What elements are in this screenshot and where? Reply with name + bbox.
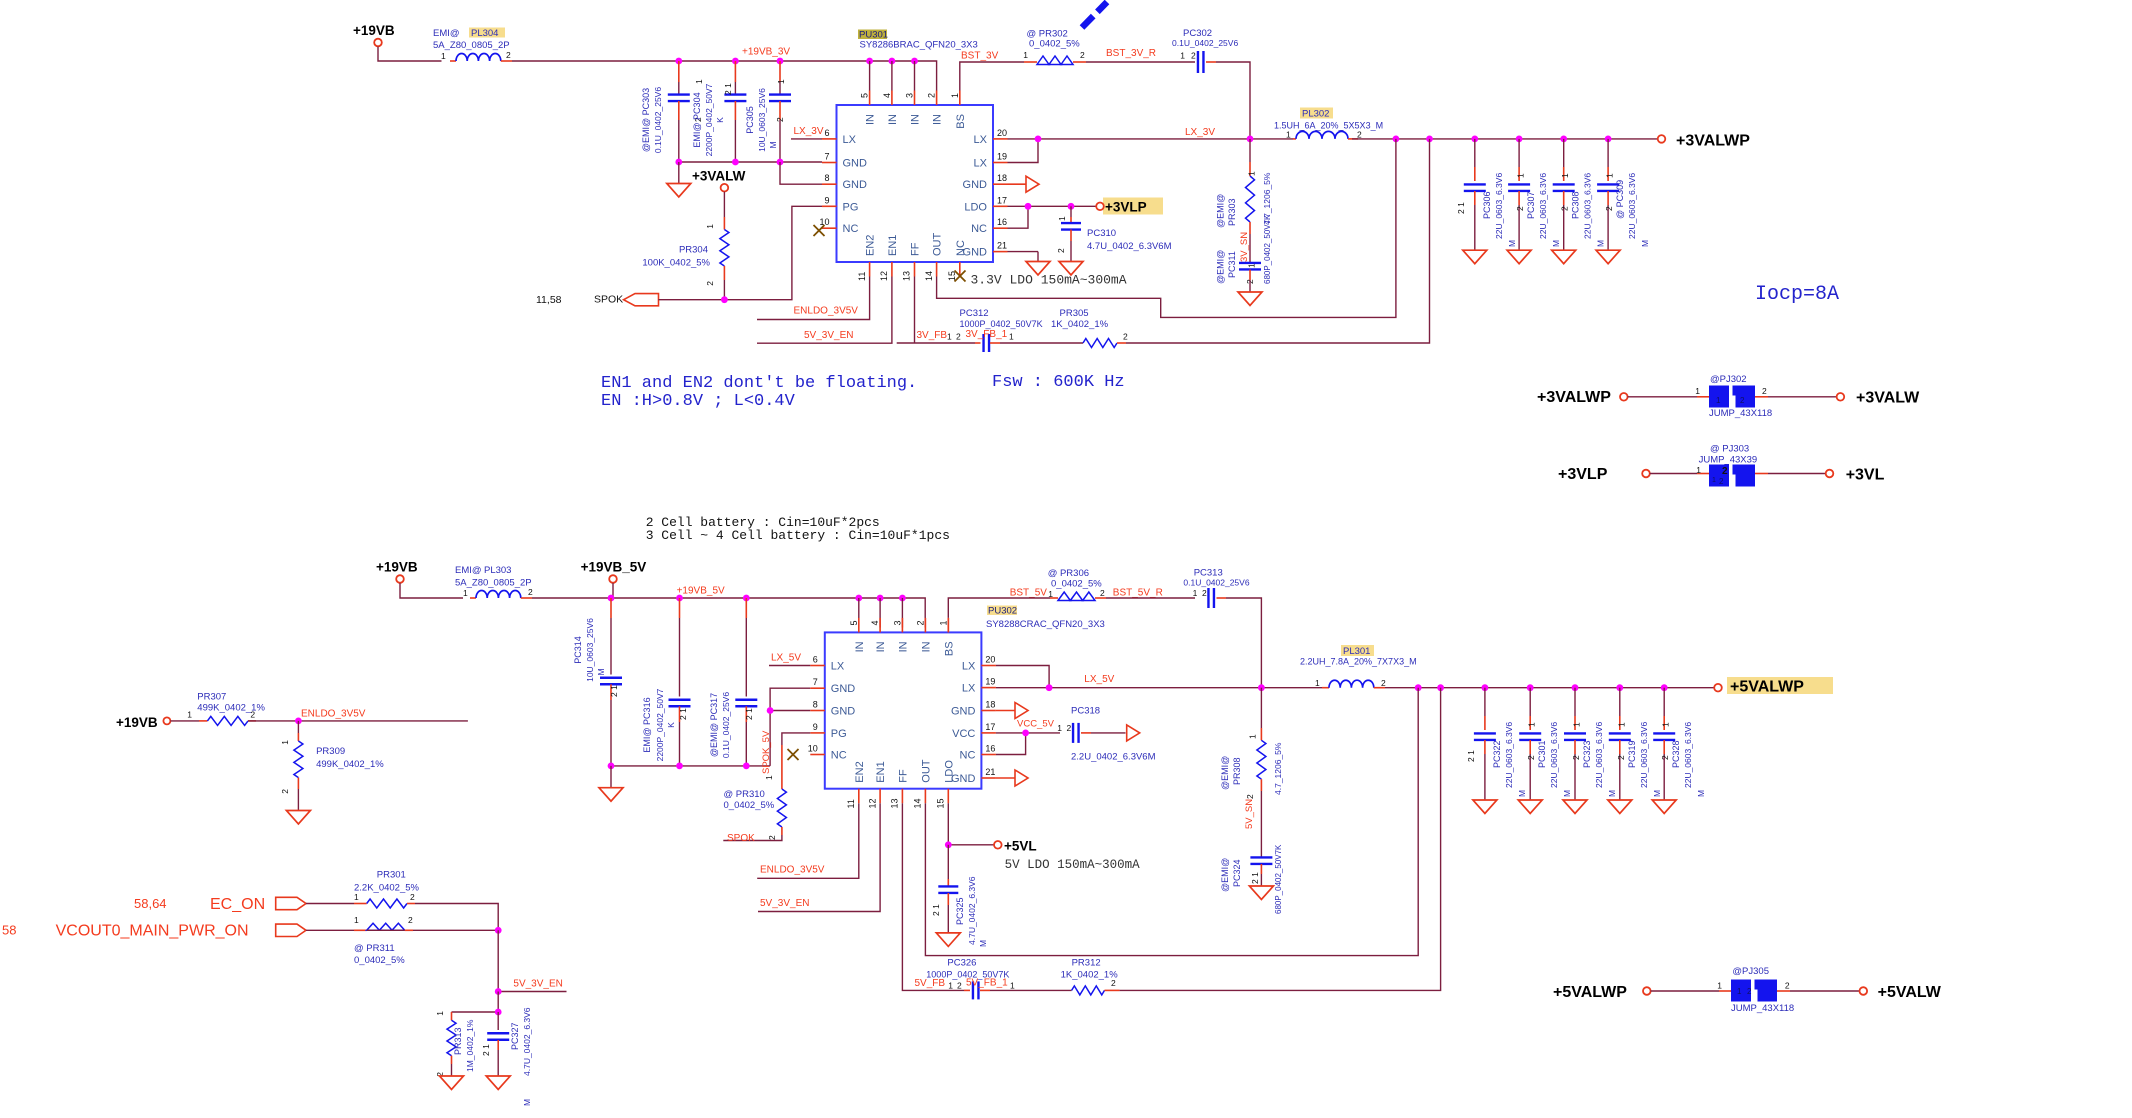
svg-text:0_0402_5%: 0_0402_5% <box>1029 39 1080 50</box>
svg-text:22U_0603_6.3V6: 22U_0603_6.3V6 <box>1504 722 1514 788</box>
svg-text:1: 1 <box>187 710 192 720</box>
wire EN1 5V_3V_EN <box>757 277 892 344</box>
svg-text:PC319: PC319 <box>1627 740 1637 768</box>
capacitor PC324 <box>1220 791 1283 914</box>
svg-text:@ PJ303: @ PJ303 <box>1710 444 1749 455</box>
svg-text:M: M <box>1507 240 1517 247</box>
svg-text:M: M <box>1607 790 1617 797</box>
svg-text:8: 8 <box>824 173 829 183</box>
resistor PR301 <box>354 870 420 909</box>
svg-text:+3VLP: +3VLP <box>1105 200 1147 215</box>
resistor PR302 <box>1023 29 1086 65</box>
svg-text:10U_0603_25V6: 10U_0603_25V6 <box>757 88 767 152</box>
net label 5V_3V_EN (left) <box>513 979 562 990</box>
svg-text:1: 1 <box>280 740 290 745</box>
svg-text:LX_3V: LX_3V <box>794 126 824 137</box>
svg-text:0.1U_0402_25V6: 0.1U_0402_25V6 <box>1172 38 1238 48</box>
wire FB to +5VALWP rail <box>1120 688 1441 991</box>
svg-text:PC325: PC325 <box>955 897 965 925</box>
svg-text:2: 2 <box>280 789 290 794</box>
svg-text:1: 1 <box>463 588 468 598</box>
svg-text:3.3V LDO 150mA~300mA: 3.3V LDO 150mA~300mA <box>971 273 1127 288</box>
wire PJ303 to +3VL <box>1755 473 1826 475</box>
wire 5V_3V_EN stub <box>498 991 566 993</box>
net label VCC_5V <box>1017 719 1055 730</box>
svg-text:BS: BS <box>955 114 967 129</box>
inductor PL301 <box>1300 645 1417 688</box>
svg-text:2: 2 <box>1762 386 1767 396</box>
svg-text:2: 2 <box>1515 206 1525 211</box>
svg-text:13: 13 <box>902 271 912 281</box>
svg-text:1: 1 <box>1661 722 1671 727</box>
svg-text:10U_0603_25V6: 10U_0603_25V6 <box>585 618 595 682</box>
svg-text:680P_0402_50V7K: 680P_0402_50V7K <box>1274 844 1283 914</box>
svg-text:18: 18 <box>997 173 1007 183</box>
svg-text:BST_3V: BST_3V <box>961 51 999 62</box>
svg-text:2: 2 <box>915 620 925 625</box>
svg-text:EMI@: EMI@ <box>433 28 460 39</box>
wire 3V_FB_1 segment <box>1000 342 1083 344</box>
svg-text:22U_0603_6.3V6: 22U_0603_6.3V6 <box>1538 173 1548 239</box>
svg-text:2: 2 <box>1357 130 1362 140</box>
svg-text:+5VL: +5VL <box>1004 839 1037 854</box>
svg-text:EN1 and EN2 dont't be floating: EN1 and EN2 dont't be floating. <box>601 374 917 393</box>
svg-text:4.7_1206_5%: 4.7_1206_5% <box>1273 742 1283 795</box>
svg-text:18: 18 <box>985 700 995 710</box>
svg-text:PC322: PC322 <box>1492 740 1502 768</box>
capacitor PC312 <box>947 308 1043 352</box>
wire +3VALWP to PJ302 <box>1628 396 1709 398</box>
svg-text:2 1: 2 1 <box>1456 202 1466 214</box>
svg-text:16: 16 <box>985 744 995 754</box>
svg-text:IN: IN <box>897 641 909 652</box>
svg-text:PC324: PC324 <box>1232 859 1242 887</box>
junction dot SPOK/PR304 <box>721 296 728 303</box>
port +3VL (jumper row) <box>1826 467 1885 484</box>
wire LX pins to rail <box>1008 139 1294 163</box>
capacitor PC306 <box>1456 139 1517 264</box>
svg-text:1: 1 <box>1716 396 1721 405</box>
svg-text:5V_3V_EN: 5V_3V_EN <box>804 330 853 341</box>
svg-text:M: M <box>1551 240 1561 247</box>
svg-text:@EMI@: @EMI@ <box>1220 756 1230 790</box>
svg-text:14: 14 <box>913 798 923 808</box>
svg-text:1: 1 <box>1712 477 1716 484</box>
wire +5VALWP rail <box>1385 687 1714 689</box>
svg-text:0.1U_0402_25V6: 0.1U_0402_25V6 <box>721 692 731 758</box>
wire +3VALWP rail <box>1352 138 1658 140</box>
svg-text:PR305: PR305 <box>1060 308 1089 319</box>
net label 3V_FB <box>917 330 948 341</box>
svg-text:4: 4 <box>870 620 880 625</box>
svg-text:1: 1 <box>1315 678 1320 688</box>
capacitor PC325 <box>931 845 988 947</box>
svg-text:+5VALWP: +5VALWP <box>1553 984 1627 1001</box>
wire +19VB to PR307 <box>170 720 207 722</box>
svg-text:VCOUT0_MAIN_PWR_ON: VCOUT0_MAIN_PWR_ON <box>56 923 249 940</box>
svg-text:M: M <box>1596 240 1606 247</box>
junction dot LDO/PC310 <box>1068 203 1075 210</box>
net label BST_3V_R <box>1106 48 1156 59</box>
svg-text:15: 15 <box>936 798 946 808</box>
svg-text:PL304: PL304 <box>471 28 498 39</box>
svg-text:17: 17 <box>985 722 995 732</box>
resistor PR306 <box>1014 568 1106 601</box>
svg-text:PC328: PC328 <box>1671 740 1681 768</box>
junction dots +3VALWP rail <box>1393 136 1612 143</box>
svg-text:8: 8 <box>813 700 818 710</box>
wire LX pins to rail (bottom) <box>996 666 1322 688</box>
svg-text:EMI@: EMI@ <box>455 565 482 576</box>
svg-text:BS: BS <box>943 641 955 656</box>
wire 5V_FB_1 segment <box>990 989 1072 991</box>
junction dot LDO/pin16 <box>1025 203 1032 210</box>
svg-text:PC301: PC301 <box>1537 740 1547 768</box>
svg-text:+19VB: +19VB <box>376 560 418 575</box>
svg-text:2: 2 <box>957 981 962 991</box>
wire FB to +3VALWP rail <box>1126 139 1430 343</box>
gnd arrow pin18 <box>1008 176 1040 192</box>
capacitor PC304 <box>692 61 746 162</box>
svg-text:22U_0603_6.3V6: 22U_0603_6.3V6 <box>1639 722 1649 788</box>
capacitor PC307 <box>1507 139 1561 264</box>
svg-text:+3VALWP: +3VALWP <box>1537 389 1611 406</box>
svg-text:5V_3V_EN: 5V_3V_EN <box>760 898 809 909</box>
svg-text:@ PR310: @ PR310 <box>724 789 765 800</box>
svg-text:12: 12 <box>867 798 877 808</box>
svg-text:100K_0402_5%: 100K_0402_5% <box>642 258 710 269</box>
junction dot BST/PR303 branch <box>1247 136 1254 143</box>
svg-text:2.2U_0402_6.3V6M: 2.2U_0402_6.3V6M <box>1071 752 1156 763</box>
resistor PR305 <box>1009 308 1128 348</box>
svg-text:EC_ON: EC_ON <box>210 896 265 913</box>
svg-text:2: 2 <box>1722 466 1728 477</box>
svg-text:10: 10 <box>808 744 818 754</box>
port +5VALWP (jumper row) <box>1553 984 1651 1001</box>
svg-text:+19VB_3V: +19VB_3V <box>742 47 790 58</box>
svg-text:5: 5 <box>849 620 859 625</box>
svg-text:K: K <box>666 722 676 728</box>
wire BS riser BST_5V <box>948 598 1014 632</box>
svg-text:PR309: PR309 <box>316 746 345 757</box>
svg-text:LX: LX <box>974 158 988 170</box>
wire PJ302 to +3VALW <box>1755 396 1837 398</box>
capacitor PC310 <box>1056 206 1172 261</box>
svg-text:499K_0402_1%: 499K_0402_1% <box>197 703 265 714</box>
junction dot BST/PR308 branch <box>1258 684 1265 691</box>
svg-text:1: 1 <box>1516 173 1526 178</box>
svg-text:22U_0603_6.3V6: 22U_0603_6.3V6 <box>1494 173 1504 239</box>
wire +3VALW to PR304 <box>723 192 725 217</box>
capacitor PC327 <box>481 1007 532 1106</box>
resistor PR313 <box>435 1011 475 1077</box>
ground symbols output caps (drawn in caps) <box>0 0 1 1</box>
svg-text:EN1: EN1 <box>875 761 887 782</box>
svg-text:2: 2 <box>1604 206 1614 211</box>
svg-text:1: 1 <box>441 51 446 61</box>
svg-text:2: 2 <box>1080 50 1085 60</box>
svg-text:+3VALW: +3VALW <box>1856 390 1920 407</box>
svg-text:PC327: PC327 <box>510 1022 520 1050</box>
resistor PR303 <box>1216 139 1273 234</box>
junction dots +5VALWP rail <box>1415 684 1668 691</box>
svg-text:22U_0603_6.3V6: 22U_0603_6.3V6 <box>1583 173 1593 239</box>
svg-text:EMI@ PC316: EMI@ PC316 <box>642 697 652 752</box>
svg-text:PR304: PR304 <box>679 245 708 256</box>
port +5VALW (jumper row) <box>1860 984 1942 1001</box>
note 5V LDO <box>1005 858 1141 872</box>
svg-text:2: 2 <box>1560 206 1570 211</box>
svg-text:M: M <box>978 940 988 947</box>
junction dot ENLDO/PR309 <box>295 718 302 725</box>
svg-text:0_0402_5%: 0_0402_5% <box>354 955 405 966</box>
svg-text:PC312: PC312 <box>960 308 989 319</box>
wire FF to 3V_FB <box>897 277 981 344</box>
svg-text:PR313: PR313 <box>453 1027 463 1055</box>
port +19VB_5V <box>581 560 647 599</box>
port +3VALW (jumper row) <box>1837 390 1921 407</box>
note Fsw <box>992 373 1125 392</box>
svg-text:M: M <box>768 141 778 148</box>
svg-text:2 1: 2 1 <box>1466 750 1476 762</box>
svg-text:@EMI@: @EMI@ <box>1216 194 1226 228</box>
wire OUT to +3VALWP rail <box>937 139 1396 318</box>
svg-text:BST_3V_R: BST_3V_R <box>1106 48 1156 59</box>
wire BST_3V_R segment <box>1086 61 1195 63</box>
net label ENLDO_3V5V (top) <box>794 306 859 317</box>
svg-text:5V_FB: 5V_FB <box>915 978 946 989</box>
svg-text:11: 11 <box>857 272 867 281</box>
svg-text:1: 1 <box>1010 981 1015 991</box>
svg-text:2: 2 <box>775 117 785 122</box>
net label ENLDO_3V5V (bottom) <box>760 865 825 876</box>
capacitor PC314 <box>573 598 622 766</box>
svg-text:PR301: PR301 <box>377 870 406 881</box>
wire BS riser BST_3V <box>960 62 1024 91</box>
wire LDO net pin17/pin16 <box>1008 206 1097 228</box>
svg-text:11,58: 11,58 <box>536 294 562 306</box>
wire FF to 5V_FB <box>902 803 970 990</box>
svg-text:+3VLP: +3VLP <box>1558 466 1608 483</box>
svg-text:3V_FB: 3V_FB <box>917 330 948 341</box>
svg-text:1: 1 <box>1560 173 1570 178</box>
svg-text:1: 1 <box>1247 171 1257 176</box>
svg-text:1: 1 <box>1572 722 1582 727</box>
svg-text:LX_3V: LX_3V <box>1185 127 1215 138</box>
svg-text:VCC: VCC <box>952 728 975 740</box>
svg-text:2: 2 <box>1747 987 1752 996</box>
capacitor PC328 <box>1652 688 1706 814</box>
wire PR311 to junction <box>413 929 498 931</box>
ground symbol input caps <box>667 162 691 197</box>
svg-text:20: 20 <box>997 128 1007 138</box>
svg-text:LX_5V: LX_5V <box>771 653 801 664</box>
capacitor PC313 <box>1183 568 1249 609</box>
svg-text:NC: NC <box>960 750 976 762</box>
svg-text:@ PR306: @ PR306 <box>1048 568 1089 579</box>
ground symbol PC311 <box>1238 292 1262 306</box>
ground symbol PC327 <box>486 1076 510 1090</box>
svg-text:VCC_5V: VCC_5V <box>1017 719 1055 730</box>
svg-text:PC318: PC318 <box>1071 706 1100 717</box>
svg-text:+19VB_5V: +19VB_5V <box>581 560 647 575</box>
note EN floating <box>601 374 917 411</box>
svg-text:3 Cell ~ 4 Cell battery : Cin=: 3 Cell ~ 4 Cell battery : Cin=10uF*1pcs <box>646 528 950 543</box>
capacitor PC303 <box>641 61 704 162</box>
net label 3V_FB_1 <box>966 329 1008 340</box>
svg-text:PC308: PC308 <box>1571 191 1581 219</box>
svg-text:58,64: 58,64 <box>134 896 167 911</box>
wire VCOUT0 to PR311 <box>306 929 354 931</box>
svg-text:1: 1 <box>764 775 774 780</box>
port +3VLP <box>1096 198 1163 215</box>
svg-text:9: 9 <box>813 722 818 732</box>
ground symbol PC325 <box>936 933 960 947</box>
PU301 pin10 NC no-connect X <box>814 225 825 236</box>
svg-text:1: 1 <box>947 332 952 342</box>
svg-text:2: 2 <box>1740 396 1745 405</box>
PU302 pin numbers <box>808 620 996 808</box>
capacitor PC305 <box>745 61 791 162</box>
net label BST_5V_R <box>1113 588 1163 599</box>
stray blue slash mark <box>1082 2 1107 28</box>
svg-text:2200P_0402_50V7: 2200P_0402_50V7 <box>655 688 665 761</box>
svg-text:2: 2 <box>408 915 413 925</box>
svg-text:@PJ302: @PJ302 <box>1710 374 1747 385</box>
junction dot EC_ON/VCOUT0 <box>495 927 502 934</box>
svg-text:2 1: 2 1 <box>678 708 688 720</box>
svg-text:JUMP_43X118: JUMP_43X118 <box>1731 1003 1794 1014</box>
svg-text:1M_0402_1%: 1M_0402_1% <box>465 1019 475 1072</box>
PU301 pin15 NC no-connect X <box>955 271 966 282</box>
svg-text:PL303: PL303 <box>484 565 511 576</box>
svg-text:@EMI@: @EMI@ <box>1216 250 1226 284</box>
ground symbol PC310 <box>1059 262 1083 276</box>
wire pin8 GND connection <box>780 162 822 184</box>
svg-text:4: 4 <box>882 93 892 98</box>
svg-text:0_0402_5%: 0_0402_5% <box>724 800 775 811</box>
wire EC_ON to PR301 <box>306 903 354 905</box>
svg-text:1: 1 <box>1527 722 1537 727</box>
wire IN pin risers <box>870 61 915 91</box>
wire SPOK (bottom) <box>723 835 782 841</box>
wire junction to 5V_3V_EN <box>497 930 499 991</box>
inductor PL303 <box>455 565 533 598</box>
svg-text:2 1: 2 1 <box>723 83 733 95</box>
net label LX_3V (left) <box>794 126 824 137</box>
svg-text:+3VL: +3VL <box>1846 467 1885 484</box>
port +3VLP (jumper row) <box>1558 466 1650 483</box>
svg-text:IN: IN <box>875 641 887 652</box>
gnd arrow pin18 (bottom) <box>996 703 1028 719</box>
wire pin21 GND <box>1008 252 1039 262</box>
svg-text:1: 1 <box>1695 386 1700 396</box>
wire input cap ground rail (bottom) <box>611 765 770 767</box>
resistor PR310 <box>724 745 787 840</box>
svg-text:2: 2 <box>1111 978 1116 988</box>
svg-text:IN: IN <box>854 641 866 652</box>
jumper PJ303 <box>1696 444 1757 488</box>
svg-text:2: 2 <box>1785 981 1790 991</box>
svg-text:M: M <box>1640 240 1650 247</box>
svg-text:5: 5 <box>860 93 870 98</box>
wire PR301 to junction <box>415 904 498 931</box>
svg-text:IN: IN <box>932 114 944 125</box>
svg-text:1: 1 <box>1057 216 1067 221</box>
svg-text:1: 1 <box>938 620 948 625</box>
svg-text:LDO: LDO <box>964 201 987 213</box>
svg-text:SPOK: SPOK <box>727 833 755 844</box>
svg-text:ENLDO_3V5V: ENLDO_3V5V <box>760 865 825 876</box>
ground symbol PC324 <box>1249 886 1273 900</box>
svg-text:2: 2 <box>506 50 511 60</box>
svg-text:PC305: PC305 <box>745 106 755 134</box>
svg-text:0_0402_5%: 0_0402_5% <box>1051 579 1102 590</box>
svg-text:M: M <box>1652 790 1662 797</box>
svg-text:GND: GND <box>831 683 856 695</box>
port +5VALWP (rail end) <box>1714 677 1833 696</box>
svg-text:Iocp=8A: Iocp=8A <box>1755 283 1839 306</box>
junction dot +5VL <box>945 841 952 848</box>
net label VCOUT0_MAIN_PWR_ON <box>56 923 249 940</box>
wire SPOK net <box>659 206 823 299</box>
svg-text:2 1: 2 1 <box>1250 872 1260 884</box>
svg-text:IN: IN <box>920 641 932 652</box>
svg-text:22U_0603_6.3V6: 22U_0603_6.3V6 <box>1594 722 1604 788</box>
svg-text:NC: NC <box>971 223 987 235</box>
svg-text:2: 2 <box>1526 755 1536 760</box>
net label 3V_SN (rotated) <box>1239 232 1250 262</box>
svg-text:22U_0603_6.3V6: 22U_0603_6.3V6 <box>1549 722 1559 788</box>
svg-text:2: 2 <box>528 587 533 597</box>
ground symbol input caps (bottom) <box>599 766 623 801</box>
svg-text:M: M <box>1696 790 1706 797</box>
PU302 pin names <box>831 641 976 785</box>
wire to PR313/PC327 <box>452 992 499 1013</box>
svg-text:12: 12 <box>879 271 889 281</box>
svg-text:OUT: OUT <box>932 233 944 257</box>
svg-text:K: K <box>715 117 725 123</box>
svg-text:+5VALW: +5VALW <box>1878 984 1942 1001</box>
svg-text:PC326: PC326 <box>947 958 976 969</box>
PU301 pin numbers <box>819 93 1007 281</box>
resistor PR311 <box>354 915 413 966</box>
net label LX_3V (rail) <box>1185 127 1215 138</box>
wire LX_3V pin6 <box>791 138 822 140</box>
off-page ref 58,64 <box>134 896 167 911</box>
svg-text:1: 1 <box>1696 465 1701 475</box>
svg-text:ENLDO_3V5V: ENLDO_3V5V <box>794 306 859 317</box>
inductor PL302 <box>1274 108 1383 140</box>
svg-text:SY8286BRAC_QFN20_3X3: SY8286BRAC_QFN20_3X3 <box>860 40 978 51</box>
svg-text:7: 7 <box>824 152 829 162</box>
svg-text:14: 14 <box>924 271 934 281</box>
ground symbol PR313 <box>440 1076 464 1090</box>
svg-text:M: M <box>596 668 606 675</box>
net label LX_5V (left) <box>771 653 801 664</box>
svg-text:1: 1 <box>1616 722 1626 727</box>
svg-text:2200P_0402_50V7: 2200P_0402_50V7 <box>704 83 714 156</box>
svg-text:1: 1 <box>705 224 715 229</box>
capacitor PC317 <box>709 598 757 766</box>
resistor PR308 <box>1220 688 1283 795</box>
junction dot LX pins (bottom) <box>1046 684 1053 691</box>
svg-text:1000P_0402_50V7K: 1000P_0402_50V7K <box>960 319 1043 329</box>
svg-text:16: 16 <box>997 217 1007 227</box>
op-amp U PU302 buck converter IC box <box>810 606 1105 804</box>
svg-text:2: 2 <box>1616 755 1626 760</box>
svg-text:20: 20 <box>985 655 995 665</box>
